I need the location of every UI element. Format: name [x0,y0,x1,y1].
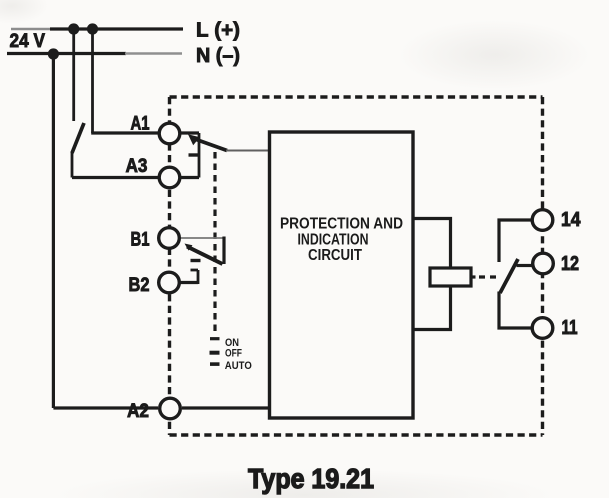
wire A1 switch output to circuit box [226,150,270,152]
wire bracket A1-A3 vertical [198,133,201,178]
contact tick of A1 changeover [189,153,200,156]
terminal B1 [159,228,180,249]
junction dot on N line [48,48,59,59]
junction dot on L line (left) [68,23,79,34]
enclosure dashed border right [541,97,544,435]
enclosure dashed border top [170,95,543,98]
contact tick of B2 [191,269,199,272]
dashed mechanical linkage vertical [213,152,216,333]
wire contact 14 [499,220,532,262]
enclosure dashed border bottom [170,433,543,436]
contact bar right of B1 [222,237,225,265]
wire 12 stub [517,264,533,267]
svg-text:14: 14 [561,209,581,231]
wire to A3 terminal [72,176,158,179]
wire bracket A3 right stub [180,176,199,179]
selector tick OFF [210,351,220,355]
enclosure dashed border left [168,97,171,435]
arrowhead of B1 blade [185,244,193,251]
contact tick of B1 switch [191,259,201,262]
junction dot on L line (right) [87,23,98,34]
terminal B2 [159,272,180,293]
svg-text:A2: A2 [127,401,149,422]
wire switch to A3 vertical [71,152,74,178]
blade of B1 contact [187,247,223,265]
wire B2 stub [181,281,199,284]
label PROTECTION AND INDICATION CIRCUIT [280,216,403,265]
svg-text:OFF: OFF [225,348,242,360]
wire bracket A1 right stub [180,131,199,134]
terminal A2 [160,398,181,419]
svg-text:Type 19.21: Type 19.21 [248,463,374,494]
svg-text:N (–): N (–) [196,45,240,67]
wire from L dot to manual switch [72,29,75,121]
svg-text:A3: A3 [126,156,148,177]
relay coil K1 [430,268,471,286]
wire box to coil bottom [413,286,451,330]
dashed linkage coil to contact [471,275,498,278]
svg-text:11: 11 [562,317,578,339]
svg-text:INDICATION: INDICATION [298,232,369,249]
svg-text:B1: B1 [131,230,150,251]
svg-text:A1: A1 [131,114,150,135]
terminal A1 [159,123,180,144]
protection and indication circuit box U1 [270,132,414,418]
terminal 12 [533,253,554,274]
switch S1 manual blade (open) [72,123,84,153]
blade of output changeover contact [500,259,518,293]
blade of A1 changeover switch [194,139,228,151]
wire from L dot to A1 [91,29,94,133]
wire contact 11 [499,292,532,329]
svg-text:CIRCUIT: CIRCUIT [308,247,362,264]
wire B1 to contact [181,237,225,239]
svg-text:L (+): L (+) [196,19,240,41]
selector tick AUTO [210,362,220,366]
selector tick ON [210,337,220,340]
svg-text:AUTO: AUTO [225,360,252,372]
wire to A1 terminal [91,131,158,134]
svg-text:B2: B2 [129,275,150,296]
terminal 14 [532,210,553,231]
arrowhead of A1 blade [188,134,200,145]
svg-text:PROTECTION AND: PROTECTION AND [280,216,403,233]
svg-text:12: 12 [561,253,579,275]
wire B2 contact vertical [197,270,200,284]
wire N (-) supply line [7,52,182,55]
terminal 11 [532,318,553,339]
wire from N dot down to A2 [52,54,55,408]
wire box to coil top [413,219,451,269]
wire A2 to circuit box [182,406,270,409]
wire L (+) supply line [11,28,183,30]
svg-text:24 V: 24 V [10,31,46,52]
terminal A3 [159,167,180,188]
wire A2 left [53,406,158,409]
